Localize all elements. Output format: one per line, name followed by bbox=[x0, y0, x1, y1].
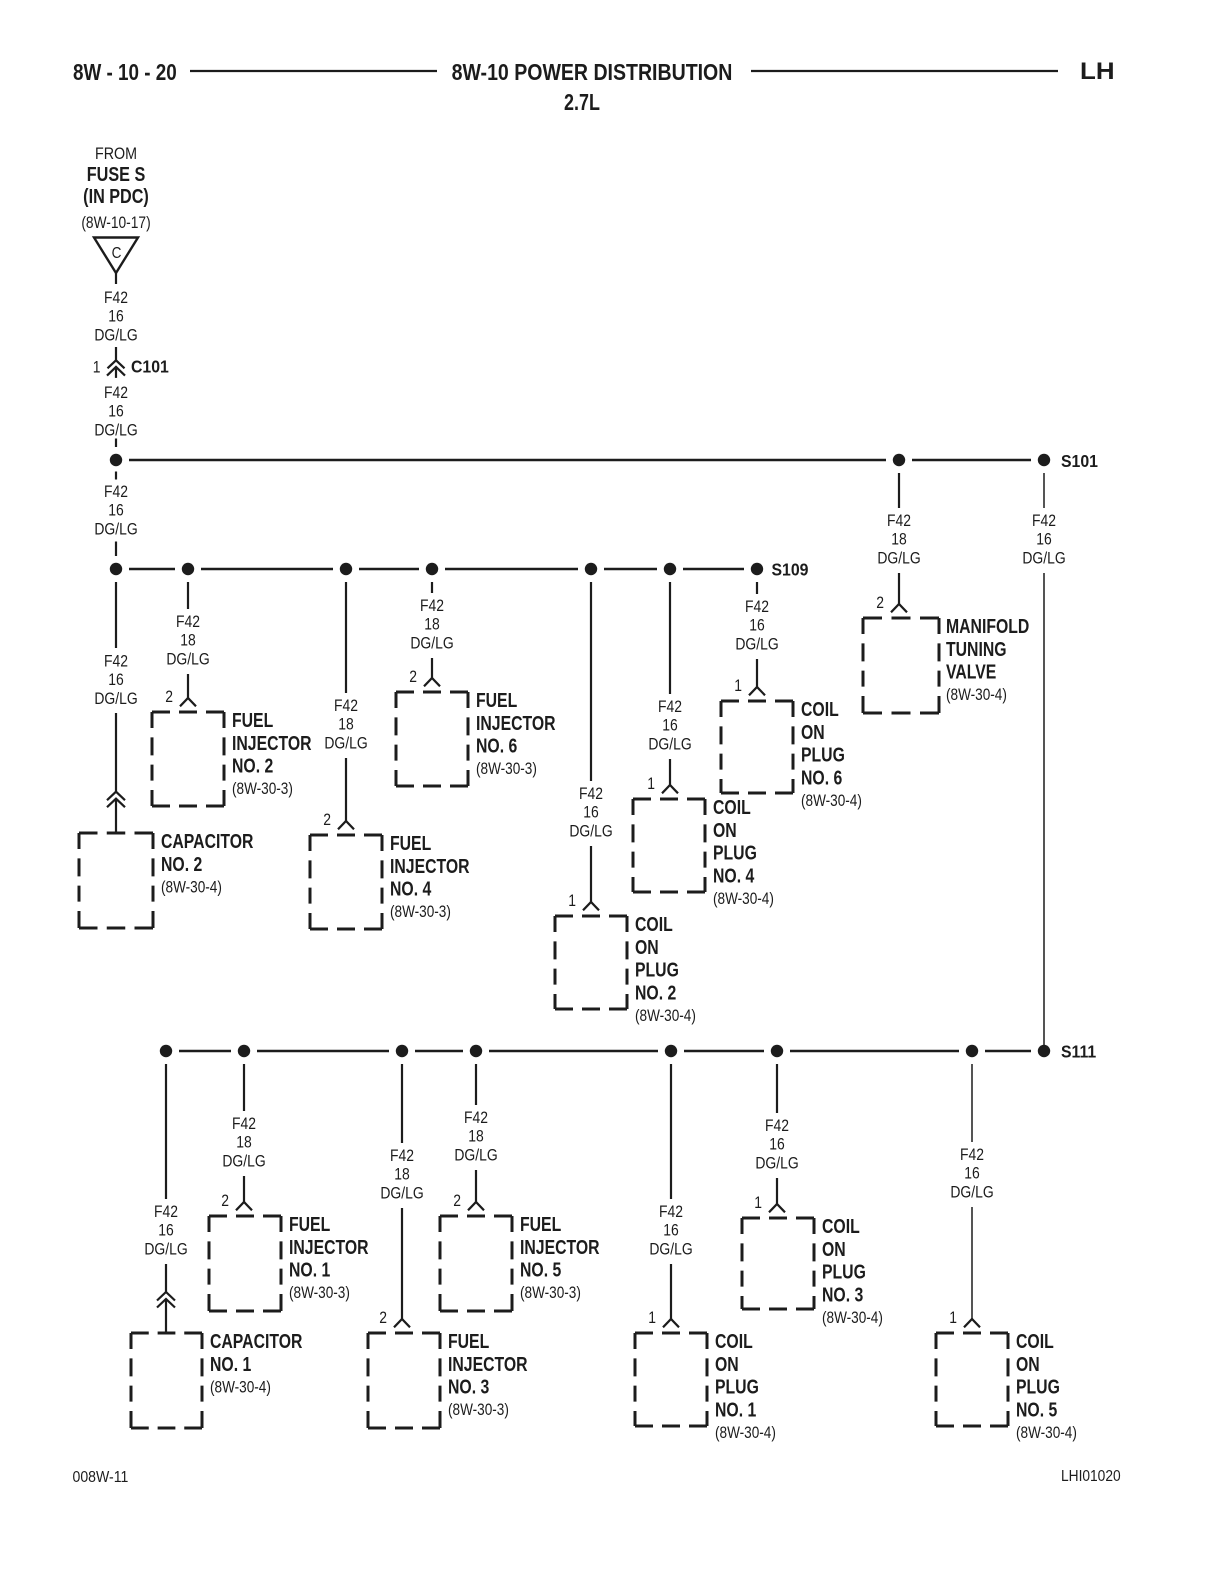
svg-text:1: 1 bbox=[734, 677, 742, 696]
svg-text:16: 16 bbox=[108, 671, 123, 690]
svg-text:(8W-10-17): (8W-10-17) bbox=[81, 214, 150, 233]
pin 2 terminal fork at fuel injector no. 4 bbox=[338, 821, 354, 829]
svg-text:FUEL: FUEL bbox=[232, 709, 273, 731]
svg-text:INJECTOR: INJECTOR bbox=[520, 1236, 600, 1258]
svg-text:ON: ON bbox=[635, 936, 659, 958]
node junction S111 fuel injector no. 3 branch bbox=[396, 1045, 408, 1057]
coil on plug no. 2 label bbox=[635, 913, 696, 1025]
svg-text:COIL: COIL bbox=[801, 698, 839, 720]
svg-text:TUNING: TUNING bbox=[946, 638, 1007, 660]
coil on plug no. 5 label bbox=[1016, 1330, 1077, 1442]
fuel injector no. 3 label bbox=[448, 1330, 528, 1419]
coil on plug no. 6 label bbox=[801, 698, 862, 810]
svg-text:1: 1 bbox=[647, 775, 655, 794]
svg-text:INJECTOR: INJECTOR bbox=[232, 732, 312, 754]
coil on plug no. 5 box bbox=[936, 1333, 1008, 1426]
svg-text:FUEL: FUEL bbox=[390, 832, 431, 854]
svg-text:ON: ON bbox=[822, 1238, 846, 1260]
svg-text:16: 16 bbox=[108, 307, 123, 326]
wire into capacitor no. 1 bbox=[165, 1299, 167, 1333]
svg-text:16: 16 bbox=[769, 1135, 784, 1154]
svg-text:DG/LG: DG/LG bbox=[649, 1240, 692, 1259]
svg-text:F42: F42 bbox=[104, 384, 128, 403]
node S109 bbox=[751, 563, 763, 575]
svg-text:1: 1 bbox=[93, 358, 101, 377]
svg-text:NO. 3: NO. 3 bbox=[448, 1376, 489, 1398]
svg-text:DG/LG: DG/LG bbox=[94, 520, 137, 539]
svg-text:F42: F42 bbox=[464, 1109, 488, 1128]
wire to fuel injector no. 1 pin bbox=[243, 1176, 245, 1202]
svg-text:(8W-30-3): (8W-30-3) bbox=[232, 780, 293, 799]
node junction S111 fuel injector no. 1 branch bbox=[238, 1045, 250, 1057]
header rule right bbox=[751, 70, 1058, 72]
in-line connector above capacitor no. 2 bbox=[107, 792, 125, 808]
wire stem below triangle bbox=[115, 273, 117, 284]
svg-text:DG/LG: DG/LG bbox=[324, 734, 367, 753]
svg-text:CAPACITOR: CAPACITOR bbox=[161, 830, 253, 852]
svg-text:DG/LG: DG/LG bbox=[648, 735, 691, 754]
svg-text:DG/LG: DG/LG bbox=[950, 1183, 993, 1202]
svg-text:COIL: COIL bbox=[635, 913, 673, 935]
in-line connector above capacitor no. 1 bbox=[157, 1292, 175, 1308]
header rule left bbox=[190, 70, 437, 72]
svg-text:18: 18 bbox=[338, 715, 353, 734]
svg-text:(8W-30-4): (8W-30-4) bbox=[715, 1423, 776, 1442]
svg-text:F42: F42 bbox=[334, 697, 358, 716]
wire to capacitor no. 1 splice bbox=[165, 1264, 167, 1292]
svg-text:DG/LG: DG/LG bbox=[1022, 549, 1065, 568]
coil on plug no. 2 box bbox=[555, 916, 627, 1009]
svg-text:F42: F42 bbox=[887, 512, 911, 531]
fuel injector no. 2 label bbox=[232, 709, 312, 798]
wire S111 to fuel injector no. 1 label bbox=[243, 1064, 245, 1111]
pin 1 terminal fork at coil on plug no. 1 bbox=[663, 1319, 679, 1327]
wire S111 to coil on plug no. 3 label bbox=[776, 1064, 778, 1113]
svg-text:NO. 4: NO. 4 bbox=[390, 878, 431, 900]
svg-text:NO. 2: NO. 2 bbox=[161, 853, 202, 875]
svg-text:1: 1 bbox=[648, 1309, 656, 1328]
svg-text:PLUG: PLUG bbox=[635, 959, 679, 981]
svg-text:MANIFOLD: MANIFOLD bbox=[946, 615, 1029, 637]
wire label F42 18 DG/LG (fuel injector no. 3) bbox=[380, 1147, 423, 1203]
svg-text:18: 18 bbox=[394, 1165, 409, 1184]
svg-text:16: 16 bbox=[749, 616, 764, 635]
coil on plug no. 4 label bbox=[713, 796, 774, 908]
svg-text:PLUG: PLUG bbox=[713, 842, 757, 864]
svg-text:18: 18 bbox=[180, 631, 195, 650]
svg-text:FUEL: FUEL bbox=[448, 1330, 489, 1352]
wire S101 bus segment right bbox=[912, 459, 1031, 462]
off-page connector triangle C from fuse S bbox=[94, 238, 138, 274]
pin 2 terminal fork at fuel injector no. 2 bbox=[180, 698, 196, 706]
svg-text:S109: S109 bbox=[772, 560, 809, 580]
pin 2 terminal fork at fuel injector no. 5 bbox=[468, 1202, 484, 1210]
svg-text:18: 18 bbox=[236, 1133, 251, 1152]
node S101 bbox=[1038, 454, 1050, 466]
svg-text:COIL: COIL bbox=[1016, 1330, 1054, 1352]
svg-text:16: 16 bbox=[108, 402, 123, 421]
pin 2 terminal fork at fuel injector no. 3 bbox=[394, 1319, 410, 1327]
svg-text:PLUG: PLUG bbox=[801, 744, 845, 766]
svg-text:NO. 5: NO. 5 bbox=[520, 1259, 561, 1281]
svg-text:PLUG: PLUG bbox=[1016, 1376, 1060, 1398]
svg-text:LHI01020: LHI01020 bbox=[1061, 1467, 1121, 1485]
node junction S109 coil on plug no. 4 branch bbox=[664, 563, 676, 575]
wire S109 to capacitor no. 2 label bbox=[115, 582, 117, 648]
wire to coil on plug no. 5 pin bbox=[971, 1207, 973, 1319]
svg-text:8W-10 POWER DISTRIBUTION: 8W-10 POWER DISTRIBUTION bbox=[452, 60, 733, 86]
svg-text:FUEL: FUEL bbox=[289, 1213, 330, 1235]
wire S101 bus segment left bbox=[129, 459, 886, 462]
svg-text:S101: S101 bbox=[1061, 451, 1098, 471]
manifold tuning valve label bbox=[946, 615, 1029, 704]
svg-text:NO. 4: NO. 4 bbox=[713, 864, 754, 886]
svg-text:16: 16 bbox=[583, 803, 598, 822]
wire S111 to capacitor no. 1 label bbox=[165, 1064, 167, 1199]
svg-text:FUEL: FUEL bbox=[476, 689, 517, 711]
fuel injector no. 4 label bbox=[390, 832, 470, 921]
wire S109 to coil on plug no. 6 label bbox=[756, 582, 758, 594]
svg-text:INJECTOR: INJECTOR bbox=[448, 1353, 528, 1375]
coil on plug no. 1 label bbox=[715, 1330, 776, 1442]
svg-text:2: 2 bbox=[165, 688, 173, 707]
svg-text:2: 2 bbox=[221, 1192, 229, 1211]
svg-text:LH: LH bbox=[1080, 58, 1115, 85]
wire S111 to fuel injector no. 5 label bbox=[475, 1064, 477, 1105]
fuel injector no. 3 box bbox=[368, 1333, 440, 1428]
wire label F42 16 DG/LG (coil on plug no. 4) bbox=[648, 698, 691, 754]
capacitor no. 1 box bbox=[131, 1333, 202, 1428]
wire S109 to fuel injector no. 6 label bbox=[431, 582, 433, 593]
wire S111 to coil on plug no. 1 label bbox=[670, 1064, 672, 1199]
svg-text:INJECTOR: INJECTOR bbox=[476, 712, 556, 734]
capacitor no. 2 label bbox=[161, 830, 253, 896]
svg-text:NO. 6: NO. 6 bbox=[476, 735, 517, 757]
svg-text:1: 1 bbox=[568, 892, 576, 911]
svg-text:F42: F42 bbox=[390, 1147, 414, 1166]
svg-text:DG/LG: DG/LG bbox=[144, 1240, 187, 1259]
node junction S109 capacitor no. 2 branch bbox=[110, 563, 122, 575]
pin 1 terminal fork at coil on plug no. 3 bbox=[769, 1204, 785, 1212]
svg-text:2: 2 bbox=[323, 811, 331, 830]
svg-text:COIL: COIL bbox=[715, 1330, 753, 1352]
svg-text:FUEL: FUEL bbox=[520, 1213, 561, 1235]
wire from label down to S111 bbox=[1043, 573, 1045, 1051]
svg-text:16: 16 bbox=[662, 716, 677, 735]
svg-text:(8W-30-4): (8W-30-4) bbox=[822, 1308, 883, 1327]
coil on plug no. 1 box bbox=[635, 1333, 707, 1426]
capacitor no. 1 label bbox=[210, 1330, 302, 1396]
svg-text:PLUG: PLUG bbox=[715, 1376, 759, 1398]
wire label F42 16 DG/LG (S101 to S109) bbox=[94, 483, 137, 539]
fuel injector no. 5 box bbox=[440, 1216, 512, 1311]
svg-text:F42: F42 bbox=[104, 483, 128, 502]
svg-text:NO. 1: NO. 1 bbox=[289, 1259, 330, 1281]
svg-text:1: 1 bbox=[949, 1309, 957, 1328]
node junction S111 coil on plug no. 5 branch bbox=[966, 1045, 978, 1057]
svg-text:F42: F42 bbox=[658, 698, 682, 717]
svg-text:NO. 2: NO. 2 bbox=[635, 981, 676, 1003]
svg-text:16: 16 bbox=[108, 501, 123, 520]
wire label F42 16 DG/LG (S101 to S111) bbox=[1022, 512, 1065, 568]
svg-text:ON: ON bbox=[801, 721, 825, 743]
wire S111 bus segments bbox=[179, 1050, 1031, 1053]
svg-text:F42: F42 bbox=[659, 1203, 683, 1222]
wire to fuel injector no. 6 pin bbox=[431, 658, 433, 678]
svg-text:COIL: COIL bbox=[822, 1215, 860, 1237]
svg-text:16: 16 bbox=[1036, 530, 1051, 549]
svg-text:CAPACITOR: CAPACITOR bbox=[210, 1330, 302, 1352]
wire to coil on plug no. 3 pin bbox=[776, 1178, 778, 1204]
svg-text:F42: F42 bbox=[232, 1115, 256, 1134]
svg-text:(IN PDC): (IN PDC) bbox=[83, 185, 149, 207]
svg-text:INJECTOR: INJECTOR bbox=[390, 855, 470, 877]
node junction S111 coil on plug no. 1 branch bbox=[665, 1045, 677, 1057]
wire label F42 18 DG/LG (fuel injector no. 5) bbox=[454, 1109, 497, 1165]
node junction S109 coil on plug no. 2 branch bbox=[585, 563, 597, 575]
svg-text:DG/LG: DG/LG bbox=[410, 634, 453, 653]
svg-text:F42: F42 bbox=[154, 1203, 178, 1222]
pin 1 terminal fork at coil on plug no. 2 bbox=[583, 902, 599, 910]
node S111 bbox=[1038, 1045, 1050, 1057]
wire into capacitor no. 2 bbox=[115, 799, 117, 833]
wire to coil on plug no. 1 pin bbox=[670, 1264, 672, 1319]
wire S101 to manifold tuning valve label bbox=[898, 473, 900, 508]
svg-text:(8W-30-4): (8W-30-4) bbox=[946, 686, 1007, 705]
svg-text:(8W-30-3): (8W-30-3) bbox=[289, 1284, 350, 1303]
pin 2 terminal fork at manifold tuning valve bbox=[891, 604, 907, 612]
svg-text:DG/LG: DG/LG bbox=[166, 650, 209, 669]
svg-text:2: 2 bbox=[453, 1192, 461, 1211]
svg-text:2.7L: 2.7L bbox=[564, 90, 600, 116]
node junction S109 fuel injector no. 6 branch bbox=[426, 563, 438, 575]
svg-text:NO. 3: NO. 3 bbox=[822, 1283, 863, 1305]
svg-text:(8W-30-4): (8W-30-4) bbox=[161, 878, 222, 897]
svg-text:DG/LG: DG/LG bbox=[94, 690, 137, 709]
svg-text:16: 16 bbox=[663, 1221, 678, 1240]
wire to fuel injector no. 2 pin bbox=[187, 674, 189, 698]
svg-text:ON: ON bbox=[713, 819, 737, 841]
svg-text:C: C bbox=[112, 245, 122, 262]
wire label F42 18 DG/LG (fuel injector no. 1) bbox=[222, 1115, 265, 1171]
wire label F42 16 DG/LG (coil on plug no. 5) bbox=[950, 1146, 993, 1202]
svg-text:DG/LG: DG/LG bbox=[222, 1152, 265, 1171]
svg-text:8W - 10 - 20: 8W - 10 - 20 bbox=[73, 60, 177, 85]
svg-text:F42: F42 bbox=[420, 597, 444, 616]
svg-text:16: 16 bbox=[964, 1164, 979, 1183]
node junction S111 fuel injector no. 5 branch bbox=[470, 1045, 482, 1057]
pin 2 terminal fork at fuel injector no. 1 bbox=[236, 1202, 252, 1210]
connector C101 symbol bbox=[107, 360, 125, 378]
svg-text:COIL: COIL bbox=[713, 796, 751, 818]
wire into connector C101 bbox=[115, 347, 117, 360]
svg-text:INJECTOR: INJECTOR bbox=[289, 1236, 369, 1258]
svg-text:DG/LG: DG/LG bbox=[735, 635, 778, 654]
wire label F42 18 DG/LG (manifold tuning valve) bbox=[877, 512, 920, 568]
node junction S111 coil on plug no. 3 branch bbox=[771, 1045, 783, 1057]
svg-text:(8W-30-4): (8W-30-4) bbox=[713, 889, 774, 908]
svg-text:DG/LG: DG/LG bbox=[380, 1184, 423, 1203]
wire label F42 16 DG/LG (below C101) bbox=[94, 384, 137, 440]
svg-text:F42: F42 bbox=[176, 613, 200, 632]
wire S109 to fuel injector no. 2 label bbox=[187, 582, 189, 609]
wire label F42 16 DG/LG (coil on plug no. 3) bbox=[755, 1117, 798, 1173]
wire S109 to coil on plug no. 4 label bbox=[669, 582, 671, 694]
svg-text:18: 18 bbox=[891, 530, 906, 549]
pin 1 terminal fork at coil on plug no. 5 bbox=[964, 1319, 980, 1327]
svg-text:PLUG: PLUG bbox=[822, 1261, 866, 1283]
node junction S111 capacitor no. 1 branch bbox=[160, 1045, 172, 1057]
svg-text:2: 2 bbox=[876, 594, 884, 613]
fuel injector no. 2 box bbox=[152, 712, 224, 806]
svg-text:DG/LG: DG/LG bbox=[454, 1146, 497, 1165]
wire to fuel injector no. 4 pin bbox=[345, 758, 347, 821]
svg-text:F42: F42 bbox=[579, 785, 603, 804]
svg-text:2: 2 bbox=[379, 1309, 387, 1328]
svg-text:FUSE S: FUSE S bbox=[87, 163, 145, 185]
svg-text:FROM: FROM bbox=[95, 145, 137, 163]
fuel injector no. 1 box bbox=[209, 1216, 281, 1311]
svg-text:F42: F42 bbox=[1032, 512, 1056, 531]
wire label F42 18 DG/LG (fuel injector no. 2) bbox=[166, 613, 209, 669]
manifold tuning valve box bbox=[863, 618, 939, 713]
svg-text:DG/LG: DG/LG bbox=[94, 421, 137, 440]
pin 1 terminal fork at coil on plug no. 6 bbox=[749, 687, 765, 695]
svg-text:NO. 5: NO. 5 bbox=[1016, 1398, 1057, 1420]
node junction S109 fuel injector no. 4 branch bbox=[340, 563, 352, 575]
svg-text:DG/LG: DG/LG bbox=[94, 326, 137, 345]
coil on plug no. 3 box bbox=[742, 1218, 814, 1309]
svg-text:S111: S111 bbox=[1061, 1042, 1096, 1062]
svg-text:(8W-30-4): (8W-30-4) bbox=[210, 1378, 271, 1397]
wire from label to S109 bus bbox=[115, 542, 117, 557]
wire label F42 18 DG/LG (fuel injector no. 6) bbox=[410, 597, 453, 653]
svg-text:(8W-30-4): (8W-30-4) bbox=[635, 1006, 696, 1025]
pin 1 terminal fork at coil on plug no. 4 bbox=[662, 785, 678, 793]
svg-text:DG/LG: DG/LG bbox=[569, 822, 612, 841]
svg-text:F42: F42 bbox=[104, 652, 128, 671]
capacitor no. 2 box bbox=[79, 833, 153, 928]
wire label F42 16 DG/LG (capacitor no. 2) bbox=[94, 652, 137, 708]
node junction at S101 feed bbox=[110, 454, 122, 466]
svg-text:VALVE: VALVE bbox=[946, 661, 996, 683]
wire S101 to S111 label bbox=[1043, 473, 1045, 508]
wire to coil on plug no. 2 pin bbox=[590, 846, 592, 902]
fuel injector no. 6 box bbox=[396, 692, 468, 786]
svg-text:DG/LG: DG/LG bbox=[877, 549, 920, 568]
svg-text:NO. 1: NO. 1 bbox=[715, 1398, 756, 1420]
svg-text:1: 1 bbox=[754, 1194, 762, 1213]
wire S109 to coil on plug no. 2 label bbox=[590, 582, 592, 781]
wire S109 bus segments bbox=[129, 568, 744, 571]
svg-text:(8W-30-4): (8W-30-4) bbox=[801, 791, 862, 810]
fuel injector no. 1 label bbox=[289, 1213, 369, 1302]
wire to manifold tuning valve pin bbox=[898, 573, 900, 604]
dashed wire into splice S101 bbox=[115, 439, 117, 480]
svg-text:ON: ON bbox=[1016, 1353, 1040, 1375]
wire label F42 16 DG/LG (above C101) bbox=[94, 289, 137, 345]
coil on plug no. 4 box bbox=[633, 799, 705, 892]
svg-text:NO. 6: NO. 6 bbox=[801, 766, 842, 788]
wire label F42 16 DG/LG (coil on plug no. 1) bbox=[649, 1203, 692, 1259]
svg-text:18: 18 bbox=[468, 1127, 483, 1146]
svg-text:F42: F42 bbox=[745, 598, 769, 617]
svg-text:DG/LG: DG/LG bbox=[755, 1154, 798, 1173]
pin 2 terminal fork at fuel injector no. 6 bbox=[424, 678, 440, 686]
source label FROM FUSE S (IN PDC) (8W-10-17) bbox=[81, 145, 150, 232]
wire S111 to fuel injector no. 3 label bbox=[401, 1064, 403, 1143]
svg-text:NO. 2: NO. 2 bbox=[232, 755, 273, 777]
svg-text:C101: C101 bbox=[131, 357, 169, 377]
wire to coil on plug no. 4 pin bbox=[669, 759, 671, 785]
svg-text:F42: F42 bbox=[765, 1117, 789, 1136]
svg-text:16: 16 bbox=[158, 1221, 173, 1240]
wire label F42 16 DG/LG (coil on plug no. 6) bbox=[735, 598, 778, 654]
fuel injector no. 4 box bbox=[310, 835, 382, 929]
svg-text:008W-11: 008W-11 bbox=[73, 1468, 129, 1486]
fuel injector no. 6 label bbox=[476, 689, 556, 778]
svg-text:18: 18 bbox=[424, 615, 439, 634]
svg-text:2: 2 bbox=[409, 668, 417, 687]
wire S109 to fuel injector no. 4 label bbox=[345, 582, 347, 693]
svg-text:(8W-30-3): (8W-30-3) bbox=[390, 903, 451, 922]
coil on plug no. 6 box bbox=[721, 701, 793, 793]
svg-text:(8W-30-3): (8W-30-3) bbox=[476, 760, 537, 779]
svg-text:NO. 1: NO. 1 bbox=[210, 1353, 251, 1375]
svg-text:(8W-30-3): (8W-30-3) bbox=[520, 1284, 581, 1303]
wire label F42 16 DG/LG (coil on plug no. 2) bbox=[569, 785, 612, 841]
svg-text:(8W-30-4): (8W-30-4) bbox=[1016, 1423, 1077, 1442]
wire to capacitor no. 2 splice bbox=[115, 713, 117, 792]
wire label F42 18 DG/LG (fuel injector no. 4) bbox=[324, 697, 367, 753]
wire to fuel injector no. 3 pin bbox=[401, 1208, 403, 1319]
wire to fuel injector no. 5 pin bbox=[475, 1170, 477, 1202]
node junction S109 fuel injector no. 2 branch bbox=[182, 563, 194, 575]
svg-text:F42: F42 bbox=[104, 289, 128, 308]
fuel injector no. 5 label bbox=[520, 1213, 600, 1302]
node junction S101 branch to manifold tuning valve bbox=[893, 454, 905, 466]
wire to coil on plug no. 6 pin bbox=[756, 659, 758, 687]
svg-text:ON: ON bbox=[715, 1353, 739, 1375]
svg-text:(8W-30-3): (8W-30-3) bbox=[448, 1401, 509, 1420]
wire S111 to coil on plug no. 5 label bbox=[971, 1064, 973, 1142]
coil on plug no. 3 label bbox=[822, 1215, 883, 1327]
wire label F42 16 DG/LG (capacitor no. 1) bbox=[144, 1203, 187, 1259]
svg-text:F42: F42 bbox=[960, 1146, 984, 1165]
